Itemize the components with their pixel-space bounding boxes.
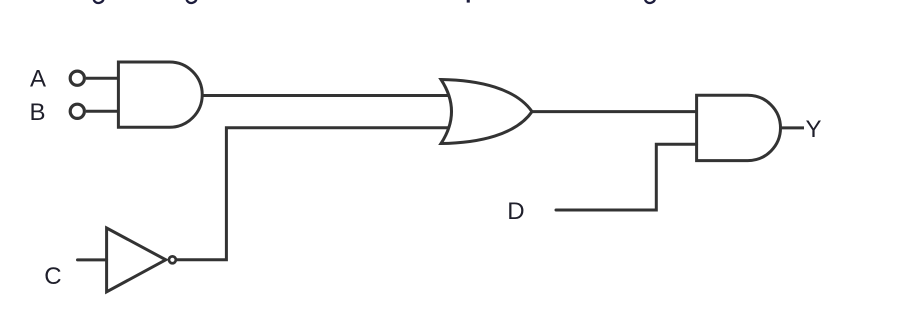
wire D to AND2 input 2 xyxy=(556,144,697,210)
svg-text:A: A xyxy=(30,66,46,93)
NOT gate bubble xyxy=(169,256,176,263)
wire AND1 output to OR input 1 xyxy=(202,94,450,97)
NOT gate U2 (inverter triangle) xyxy=(107,228,166,292)
wire A to AND1 xyxy=(86,77,118,80)
input terminal A xyxy=(70,71,84,85)
AND gate U4 (output stage) xyxy=(697,95,781,160)
wire NOT output up to OR input 2 xyxy=(176,128,449,260)
title descender p xyxy=(467,0,470,3)
AND gate U1 (A.B) xyxy=(118,62,202,127)
wire AND2 output to Y xyxy=(781,126,805,129)
title descender g1 (clipped caption top) xyxy=(94,0,104,3)
title descender g2 xyxy=(187,0,197,3)
svg-text:D: D xyxy=(507,198,524,225)
wire OR output to AND2 input 1 xyxy=(532,110,697,113)
svg-text:C: C xyxy=(44,263,61,290)
title descender g3 xyxy=(645,0,655,3)
input terminal B xyxy=(70,104,84,118)
wire C to NOT xyxy=(78,258,107,261)
svg-text:B: B xyxy=(30,99,46,126)
svg-text:Y: Y xyxy=(806,116,822,143)
wire B to AND1 xyxy=(86,110,118,113)
OR gate U3 xyxy=(441,80,532,144)
